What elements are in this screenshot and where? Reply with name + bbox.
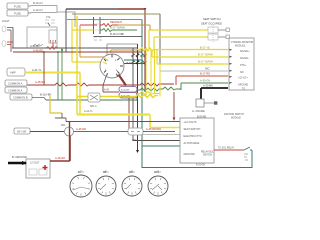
svg-text:ALT/CHARGE: ALT/CHARGE [184, 142, 200, 145]
svg-text:IGNITION SWITCH: IGNITION SWITCH [224, 114, 244, 116]
svg-text:A-41-YL: A-41-YL [32, 68, 42, 72]
svg-text:COMMON A: COMMON A [8, 89, 23, 93]
svg-text:SWITCH: SWITCH [203, 155, 212, 157]
svg-text:SEAT SWITCH: SEAT SWITCH [203, 17, 221, 21]
svg-text:MODULE: MODULE [231, 118, 241, 120]
svg-text:B-17-YE/WH: B-17-YE/WH [198, 53, 213, 57]
svg-text:A-45-RD: A-45-RD [33, 49, 43, 53]
svg-text:KEY SW: KEY SW [17, 131, 27, 134]
svg-text:SPL: SPL [61, 124, 66, 127]
svg-text:A-45: A-45 [104, 89, 110, 92]
svg-text:COMMON B: COMMON B [13, 96, 28, 100]
svg-text:ENG: ENG [154, 172, 159, 174]
svg-text:SIGNAL-: SIGNAL- [240, 57, 249, 60]
svg-text:COMMON A: COMMON A [8, 82, 23, 86]
svg-text:N/C: N/C [240, 72, 244, 74]
svg-text:G- FRAME: G- FRAME [192, 109, 205, 113]
svg-text:RED/WHT: RED/WHT [110, 20, 123, 24]
svg-text:B-11A-BK: B-11A-BK [40, 93, 52, 97]
svg-text:TO: TO [242, 89, 245, 91]
svg-text:27a: 27a [46, 15, 51, 19]
svg-text:SEAT OCCUPIED: SEAT OCCUPIED [201, 22, 222, 26]
svg-text:RB: RB [103, 172, 107, 174]
svg-text:A-45-RD: A-45-RD [76, 127, 86, 131]
svg-text:GROUND: GROUND [238, 85, 249, 87]
svg-text:A-30-BK: A-30-BK [121, 89, 130, 92]
svg-text:+12 VLT+: +12 VLT+ [238, 78, 249, 80]
svg-text:B-16-GY/BK: B-16-GY/BK [110, 32, 125, 36]
svg-text:B-17-YE/WH: B-17-YE/WH [198, 60, 213, 64]
svg-text:A-45-RD/WH: A-45-RD/WH [146, 127, 161, 131]
svg-text:LIGHT: LIGHT [2, 19, 10, 23]
svg-text:A-30-BK: A-30-BK [30, 44, 40, 48]
svg-text:A-41-YL: A-41-YL [84, 110, 93, 113]
svg-text:GROUND: GROUND [184, 153, 195, 156]
svg-text:SIGNAL+: SIGNAL+ [240, 50, 250, 53]
svg-text:FUSE: FUSE [14, 12, 21, 16]
svg-text:ENGINE: ENGINE [197, 116, 207, 119]
svg-text:A-30-GN: A-30-GN [200, 79, 210, 83]
svg-text:A-30-BK: A-30-BK [203, 84, 213, 88]
svg-text:+12 VOLTS: +12 VOLTS [184, 121, 197, 124]
svg-text:A-31-GN: A-31-GN [196, 164, 205, 167]
svg-text:AMP: AMP [10, 71, 16, 75]
svg-text:B-10-GY: B-10-GY [33, 1, 43, 5]
svg-text:A-31-GN: A-31-GN [121, 95, 130, 98]
svg-text:12 VOLT: 12 VOLT [30, 162, 40, 165]
svg-text:B-17-YE/WH: B-17-YE/WH [110, 26, 125, 30]
svg-text:A-45-RD: A-45-RD [35, 80, 45, 84]
svg-text:FUSE: FUSE [14, 5, 21, 9]
svg-text:SEAT SWITCH: SEAT SWITCH [184, 128, 201, 131]
svg-text:ELECTRIC PTO: ELECTRIC PTO [184, 135, 202, 138]
svg-text:MODULE: MODULE [235, 45, 246, 48]
svg-text:A-45-RD: A-45-RD [55, 156, 65, 160]
svg-text:B-17-YE: B-17-YE [200, 46, 210, 50]
svg-text:20A: 20A [132, 138, 137, 142]
svg-text:SPL A: SPL A [90, 105, 97, 108]
svg-text:B R: B R [127, 62, 131, 65]
svg-text:TO SOL RELAY: TO SOL RELAY [218, 147, 235, 150]
svg-text:RELAY/SOL: RELAY/SOL [201, 151, 214, 154]
svg-text:N/C: N/C [205, 67, 210, 71]
svg-text:B-17-RD: B-17-RD [200, 72, 210, 76]
svg-text:B- GROUND: B- GROUND [12, 155, 27, 159]
svg-text:PTO+: PTO+ [240, 65, 247, 67]
svg-text:A-10-GY: A-10-GY [33, 8, 43, 12]
